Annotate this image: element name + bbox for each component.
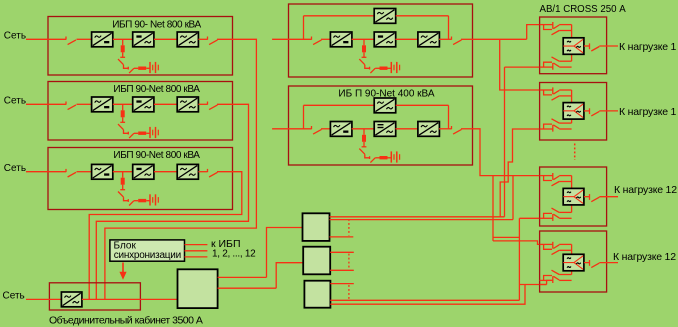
wire: rectifier to inverter, UPS A1 <box>113 38 133 40</box>
wire: switch to rectifier, UPS B4 <box>321 38 330 40</box>
wire: mains to bypass converter <box>26 298 61 300</box>
wire: UPS A2 output bus to tie cabinet <box>96 104 248 299</box>
wire: bypass drop to output, UPS B4 <box>448 16 450 40</box>
rectifier U31 (~/=) <box>92 164 113 179</box>
wire: S-box 2 lower stub <box>330 269 354 271</box>
output switch AB2 <box>590 108 600 116</box>
wire: bypass line right, UPS B4 <box>396 15 449 17</box>
wire: converter to output switch, UPS B4 <box>439 38 451 40</box>
battery branch GB4 (fuse, switch, fuse, battery) <box>359 39 399 73</box>
wire: converter to output switch, UPS B12 <box>439 128 451 130</box>
cross switch AB2 frame <box>540 83 607 141</box>
static transfer switch STS2 <box>563 103 584 120</box>
S-box 3 (output tie box) <box>304 281 330 308</box>
wire: riser to S-box 1 <box>267 228 303 278</box>
battery branch GB2 (fuse, switch, fuse, battery) <box>118 104 158 138</box>
wire: sync output 2 <box>185 250 208 252</box>
battery branch GB3 (fuse, switch, fuse, battery) <box>118 172 158 206</box>
wire: input stub, UPS B4 <box>272 38 311 40</box>
switch AB3 top input (double-pole) <box>540 173 572 186</box>
battery branch GB12 (fuse, switch, fuse, battery) <box>359 129 399 163</box>
svg-text:К нагрузке 12: К нагрузке 12 <box>613 251 676 263</box>
bypass converter UB120 (~/~) <box>374 98 396 113</box>
wire: UPS A1 output bus to tie cabinet <box>105 39 257 299</box>
wire: inverter to output converter, UPS A1 <box>154 38 177 40</box>
cross switch AB1 frame <box>540 17 607 74</box>
sync arrow to tie cabinet <box>119 263 126 280</box>
wire: converter to output switch, UPS A1 <box>198 38 207 40</box>
wire: S-box 3 upper stub <box>330 283 354 285</box>
svg-text:К нагрузке 1: К нагрузке 1 <box>619 41 677 53</box>
svg-text:ИБП 90- Net 800 кВА: ИБП 90- Net 800 кВА <box>112 20 201 31</box>
input switch Q11 <box>66 37 76 45</box>
wire: AB4 bottom feed rise to STS <box>571 271 573 275</box>
wire: sync output 3 <box>185 256 208 258</box>
S-box 1 (output tie box) <box>303 213 330 241</box>
output static switch UB123 (~/~) <box>418 122 440 137</box>
wire: into cross switch AB1 bottom input <box>505 66 540 68</box>
svg-text:Сеть: Сеть <box>4 31 26 42</box>
inverter U12 (=/~) <box>133 32 154 47</box>
svg-text:Сеть: Сеть <box>3 290 25 301</box>
wire: sync output 1 <box>185 244 208 246</box>
input switch Q21 <box>66 102 76 110</box>
wire: bypass line left, UPS B4 <box>304 15 375 17</box>
wire: feeder branch to riser <box>493 236 519 238</box>
UPS unit A1 cabinet frame <box>48 17 233 76</box>
wire: feeder to cross switch AB4 top input <box>493 241 540 245</box>
tie-cabinet bypass converter (~/~) <box>61 292 82 307</box>
switch AB3 bottom input (double-pole) <box>540 208 572 221</box>
wire: AB3 output stub <box>599 196 618 198</box>
S-box 2 (output tie box) <box>303 247 330 275</box>
wire: S-box 3 output line A to riser <box>330 299 519 301</box>
switch AB4 bottom input (double-pole) <box>540 270 572 283</box>
wire: branch to cross switch AB3 bottom input <box>519 217 539 219</box>
rectifier U21 (~/=) <box>92 97 113 112</box>
output switch Q32 <box>208 169 218 177</box>
dotted continuation at S-box 1 <box>348 219 350 236</box>
static transfer switch STS3 <box>563 188 584 205</box>
wire: AB4 output stub <box>599 262 618 264</box>
wire: inverter to output converter, UPS A2 <box>154 103 177 105</box>
wire: inverter to output converter, UPS B4 <box>395 38 418 40</box>
UPS unit B12 cabinet frame <box>289 86 473 165</box>
dotted continuation at S-box 2 <box>348 254 350 270</box>
wire: riser joining UPS B12 feeder <box>512 176 514 220</box>
wire: bypass drop to output, UPS B12 <box>448 105 450 129</box>
output switch AB1 <box>590 43 600 51</box>
inverter UB42 (=/~) <box>374 32 396 47</box>
wire: UPS B12 output feeder to cross switch AB3 top input <box>473 129 540 176</box>
distribution box (large) <box>178 269 218 308</box>
UPS unit A2 cabinet frame <box>48 82 233 141</box>
wire: S-box 2 upper stub <box>330 251 354 253</box>
wire: feeder drop at node D1 <box>492 176 494 241</box>
UPS unit A3 cabinet frame <box>48 148 233 210</box>
wire: bypass riser, UPS B4 <box>303 16 305 40</box>
static transfer switch STS1 <box>563 38 584 55</box>
wire: inverter to output converter, UPS A3 <box>154 171 177 173</box>
static transfer switch STS4 <box>563 254 584 270</box>
wire: AB1 bottom feed rise to STS <box>571 54 573 61</box>
wire: AB3 STS to output switch <box>584 196 590 198</box>
wire: AB2 STS to output switch <box>584 110 590 112</box>
input switch Q31 <box>66 169 76 177</box>
svg-text:Сеть: Сеть <box>4 163 26 174</box>
wire: distribution output 2 <box>218 287 277 289</box>
svg-text:Объединительный кабинет 3500 А: Объединительный кабинет 3500 А <box>49 315 203 327</box>
rectifier U11 (~/=) <box>92 32 113 47</box>
svg-text:К нагрузке 12: К нагрузке 12 <box>614 184 677 196</box>
output switch Q12 <box>208 37 218 45</box>
wire: bypass line left, UPS B12 <box>304 104 375 106</box>
svg-text:1, 2, ..., 12: 1, 2, ..., 12 <box>212 249 256 260</box>
wire: feeder branch to cross switch AB2 top input <box>500 39 540 90</box>
input switch QB41 <box>312 37 322 45</box>
wire: switch to rectifier, UPS A1 <box>77 38 92 40</box>
wire: bypass converter to distribution box <box>82 298 178 300</box>
battery branch GB1 (fuse, switch, fuse, battery) <box>118 39 158 73</box>
wire: S-box 1 lower stub <box>330 236 354 238</box>
wire: converter to output switch, UPS A3 <box>198 171 207 173</box>
dotted continuation between AB2 and AB3 <box>574 144 576 161</box>
wire: rectifier to inverter, UPS A2 <box>113 103 133 105</box>
svg-text:АВ/1 CROSS 250 А: АВ/1 CROSS 250 А <box>540 4 627 15</box>
input switch QB121 <box>312 126 322 134</box>
wire: inverter to output converter, UPS B12 <box>395 128 418 130</box>
rectifier UB41 (~/=) <box>330 32 352 47</box>
wire: output to frame edge, UPS B4 <box>461 38 473 40</box>
output switch QB122 <box>452 126 462 134</box>
wire: UPS A3 output bus to tie cabinet <box>89 172 242 300</box>
wire: mains to input switch, UPS A2 <box>26 103 66 105</box>
wire: distribution output 1 <box>218 276 267 278</box>
wire: AB4 bottom feed entry jog <box>547 280 552 284</box>
wire: output to frame edge, UPS B12 <box>461 128 473 130</box>
wire: switch to rectifier, UPS A2 <box>77 103 92 105</box>
svg-text:синхронизации: синхронизации <box>114 250 181 261</box>
switch AB4 top input (double-pole) <box>540 242 572 255</box>
wire: riser for cross switches AB3/AB4 <box>518 218 520 300</box>
svg-text:Сеть: Сеть <box>4 96 26 107</box>
inverter U32 (=/~) <box>133 164 154 179</box>
rectifier UB121 (~/=) <box>330 122 352 137</box>
wire: rectifier to inverter, UPS B12 <box>352 128 375 130</box>
wire: AB3 bottom feed rise to STS <box>571 205 573 213</box>
wire: AB4 STS to output switch <box>584 262 590 264</box>
cross switch AB3 frame <box>540 167 607 226</box>
wire: rectifier to inverter, UPS B4 <box>352 38 375 40</box>
wire: AB3 top feed drop to STS <box>571 176 573 189</box>
inverter UB122 (=/~) <box>374 122 396 137</box>
wire: input stub, UPS B12 <box>272 128 311 130</box>
switch AB1 top input (double-pole) <box>540 22 572 35</box>
wire: zigzag riser to cross switch AB2 bottom input <box>500 129 539 217</box>
wire: mains to input switch, UPS A3 <box>26 171 66 173</box>
wire: AB1 STS to output switch <box>584 45 590 47</box>
svg-text:К нагрузке 1: К нагрузке 1 <box>619 106 677 118</box>
wire: S-box 1 second bus <box>330 219 514 221</box>
wire: AB2 bottom feed rise to STS <box>571 119 573 123</box>
output static switch U13 (~/~) <box>177 32 198 47</box>
wire: switch to rectifier, UPS B12 <box>321 128 330 130</box>
wire: branch to cross switch AB4 bottom input <box>519 284 546 286</box>
wire: rectifier to inverter, UPS A3 <box>113 171 133 173</box>
switch AB2 bottom input (double-pole) <box>540 119 572 132</box>
cross switch AB4 frame <box>540 231 607 292</box>
wire: switch to rectifier, UPS A3 <box>77 171 92 173</box>
tie cabinet frame (Объединительный кабинет) <box>49 283 140 310</box>
wire: bypass line right, UPS B12 <box>396 104 449 106</box>
UPS unit B4 cabinet frame <box>289 4 473 77</box>
wire: AB4 top feed drop to STS <box>571 244 573 254</box>
output static switch U23 (~/~) <box>177 97 198 112</box>
svg-text:ИБП 90-Net 800 кВА: ИБП 90-Net 800 кВА <box>113 84 200 95</box>
output switch QB42 <box>452 37 462 45</box>
wire: mains to input switch, UPS A1 <box>26 38 66 40</box>
wire: S-box 3 output line B to AB4 bottom feeder <box>330 285 525 305</box>
sync unit box (Блок синхронизации) <box>110 240 185 261</box>
wire: AB2 output stub <box>599 110 618 112</box>
inverter U22 (=/~) <box>133 97 154 112</box>
output switch Q22 <box>208 102 218 110</box>
wire: AB2 top feed drop to STS <box>571 90 573 103</box>
output switch AB4 <box>590 260 600 268</box>
wire: riser to cross switch AB1 bottom input <box>504 67 506 217</box>
wire: converter to output switch, UPS A2 <box>198 103 207 105</box>
wire: feeder rise to cross switch AB1 top input <box>527 25 540 40</box>
wire: AB1 top feed drop to STS <box>571 25 573 38</box>
output static switch UB43 (~/~) <box>418 32 440 47</box>
wire: AB1 output stub <box>599 45 618 47</box>
wire: riser to S-box 2 <box>276 263 303 289</box>
output static switch U33 (~/~) <box>177 164 198 179</box>
wire: bypass riser, UPS B12 <box>303 105 305 129</box>
wire: UPS B4 output feeder <box>473 38 527 40</box>
switch AB1 bottom input (double-pole) <box>540 57 572 70</box>
switch AB2 top input (double-pole) <box>540 87 572 100</box>
dotted continuation at S-box 3 <box>348 285 350 299</box>
bypass converter UB40 (~/~) <box>374 9 396 24</box>
svg-text:ИБП 90-Net 800 кВА: ИБП 90-Net 800 кВА <box>113 150 200 161</box>
output switch AB3 <box>590 194 600 202</box>
wire: S-box 1 to cross switches (load 1 reserve bus) <box>330 216 505 218</box>
